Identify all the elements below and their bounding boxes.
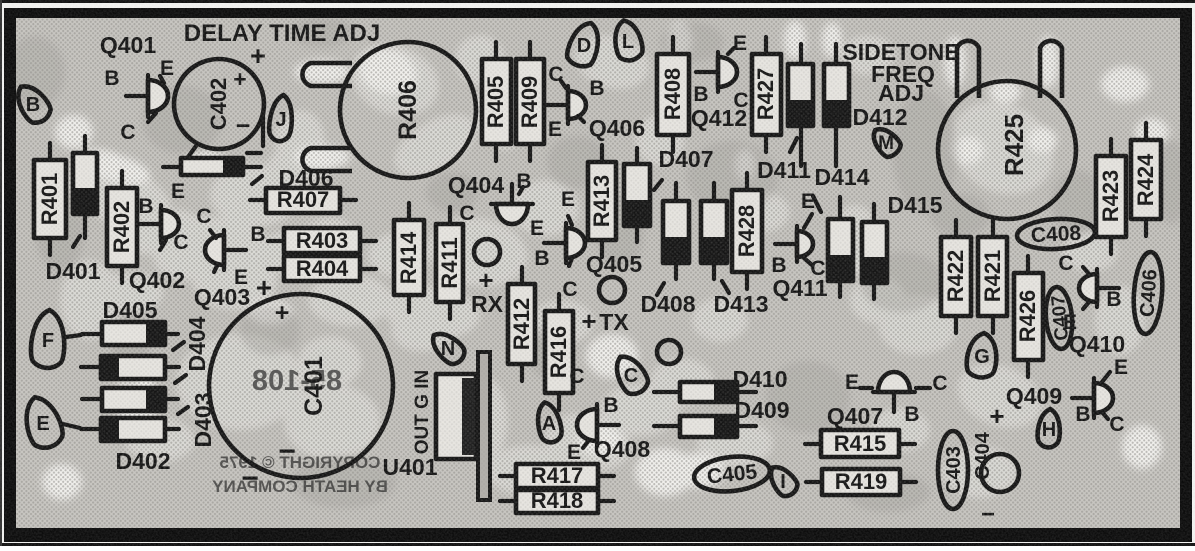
pad N [425,326,470,370]
capacitor C405 [692,453,771,495]
wire [247,151,261,155]
resistor R407 [250,187,356,213]
diode D405 [82,322,178,345]
scan edge bottom [0,543,1195,546]
wire [261,113,265,146]
pad E [19,392,67,452]
transistor Q410 [1079,267,1119,309]
pad J [268,94,295,142]
wire [73,236,80,247]
transistor Q407 [860,372,930,412]
diode D408 [663,183,689,279]
resistor R411 [436,207,463,319]
wire [813,196,821,212]
resistor R427 [752,37,781,152]
wire [657,283,664,295]
pad A [534,400,564,444]
wire [790,138,797,152]
transistor Q408 [577,404,619,448]
resistor R413 [588,145,616,257]
resistor R422 [941,220,971,333]
resistor R421 [978,220,1007,333]
transistor Q401 [126,75,168,122]
pad H [1037,408,1062,448]
diode D415 [862,204,887,299]
resistor R408 [657,37,689,152]
potentiometer R406 [302,42,476,178]
resistor R402 [107,171,137,283]
diode D403 [82,388,178,411]
capacitor C403 [938,431,968,509]
diode D413 [701,183,727,279]
pad L [611,18,645,63]
wire [722,281,729,293]
wire [654,180,662,190]
pad B [10,79,55,127]
diode D414 [828,197,853,297]
transistor Q411 [775,214,813,265]
transistor Q404 [491,184,533,224]
resistor R412 [508,267,535,381]
wire [173,342,184,350]
diode D402 [81,418,179,441]
pad D [564,19,604,70]
resistor R414 [394,203,424,312]
IC U401 heatsink bar [478,352,490,500]
transistor Q405 [544,216,585,266]
pad C [609,350,652,398]
resistor R405 [482,42,511,161]
resistor R409 [516,42,544,161]
transistor Q402 [139,205,179,250]
wire [178,407,188,414]
resistor R424 [1131,123,1161,236]
pad M [865,122,905,162]
transistor Q412 [696,48,737,92]
resistor R415 [805,430,915,457]
resistor R423 [1096,139,1126,254]
diode D412 [824,44,849,166]
IC U401 body [436,374,476,459]
resistor R428 [732,173,762,289]
transistor Q403 [205,230,246,272]
capacitor C402 [174,59,264,149]
diode D409 [654,416,756,437]
pad circle [657,340,681,364]
pad circle [599,277,625,303]
scan edge left [0,0,2,546]
capacitor C401 [209,294,393,478]
resistor R404 [268,256,376,281]
diode D406 [163,158,261,175]
capacitor C406 [1131,251,1165,335]
resistor R418 [500,488,614,513]
wire [63,424,80,428]
diode D411 [788,44,813,166]
pad G [965,332,999,379]
pad circle [474,239,500,265]
diode D410 [654,382,756,402]
resistor R419 [806,469,916,495]
transistor Q406 [546,81,586,124]
copper trace washes [57,27,1145,498]
capacitor C407 [1043,286,1074,350]
wire [175,375,186,383]
wire [66,335,81,337]
diode D401 [73,136,97,238]
transistor Q409 [1072,372,1113,419]
resistor R426 [1014,256,1043,377]
wire [188,146,196,157]
pad F [30,309,66,369]
diode D407 [624,148,650,242]
resistor R403 [268,228,376,253]
wire [252,176,262,184]
resistor R417 [500,463,614,488]
potentiometer R425 [938,41,1076,219]
resistor R416 [545,294,573,410]
capacitor C408 [1016,217,1095,251]
diode D404 [81,356,179,379]
pad I [764,461,801,500]
resistor R401 [34,143,66,255]
scan edge top [0,0,1195,3]
capacitor C404 [972,431,1019,492]
